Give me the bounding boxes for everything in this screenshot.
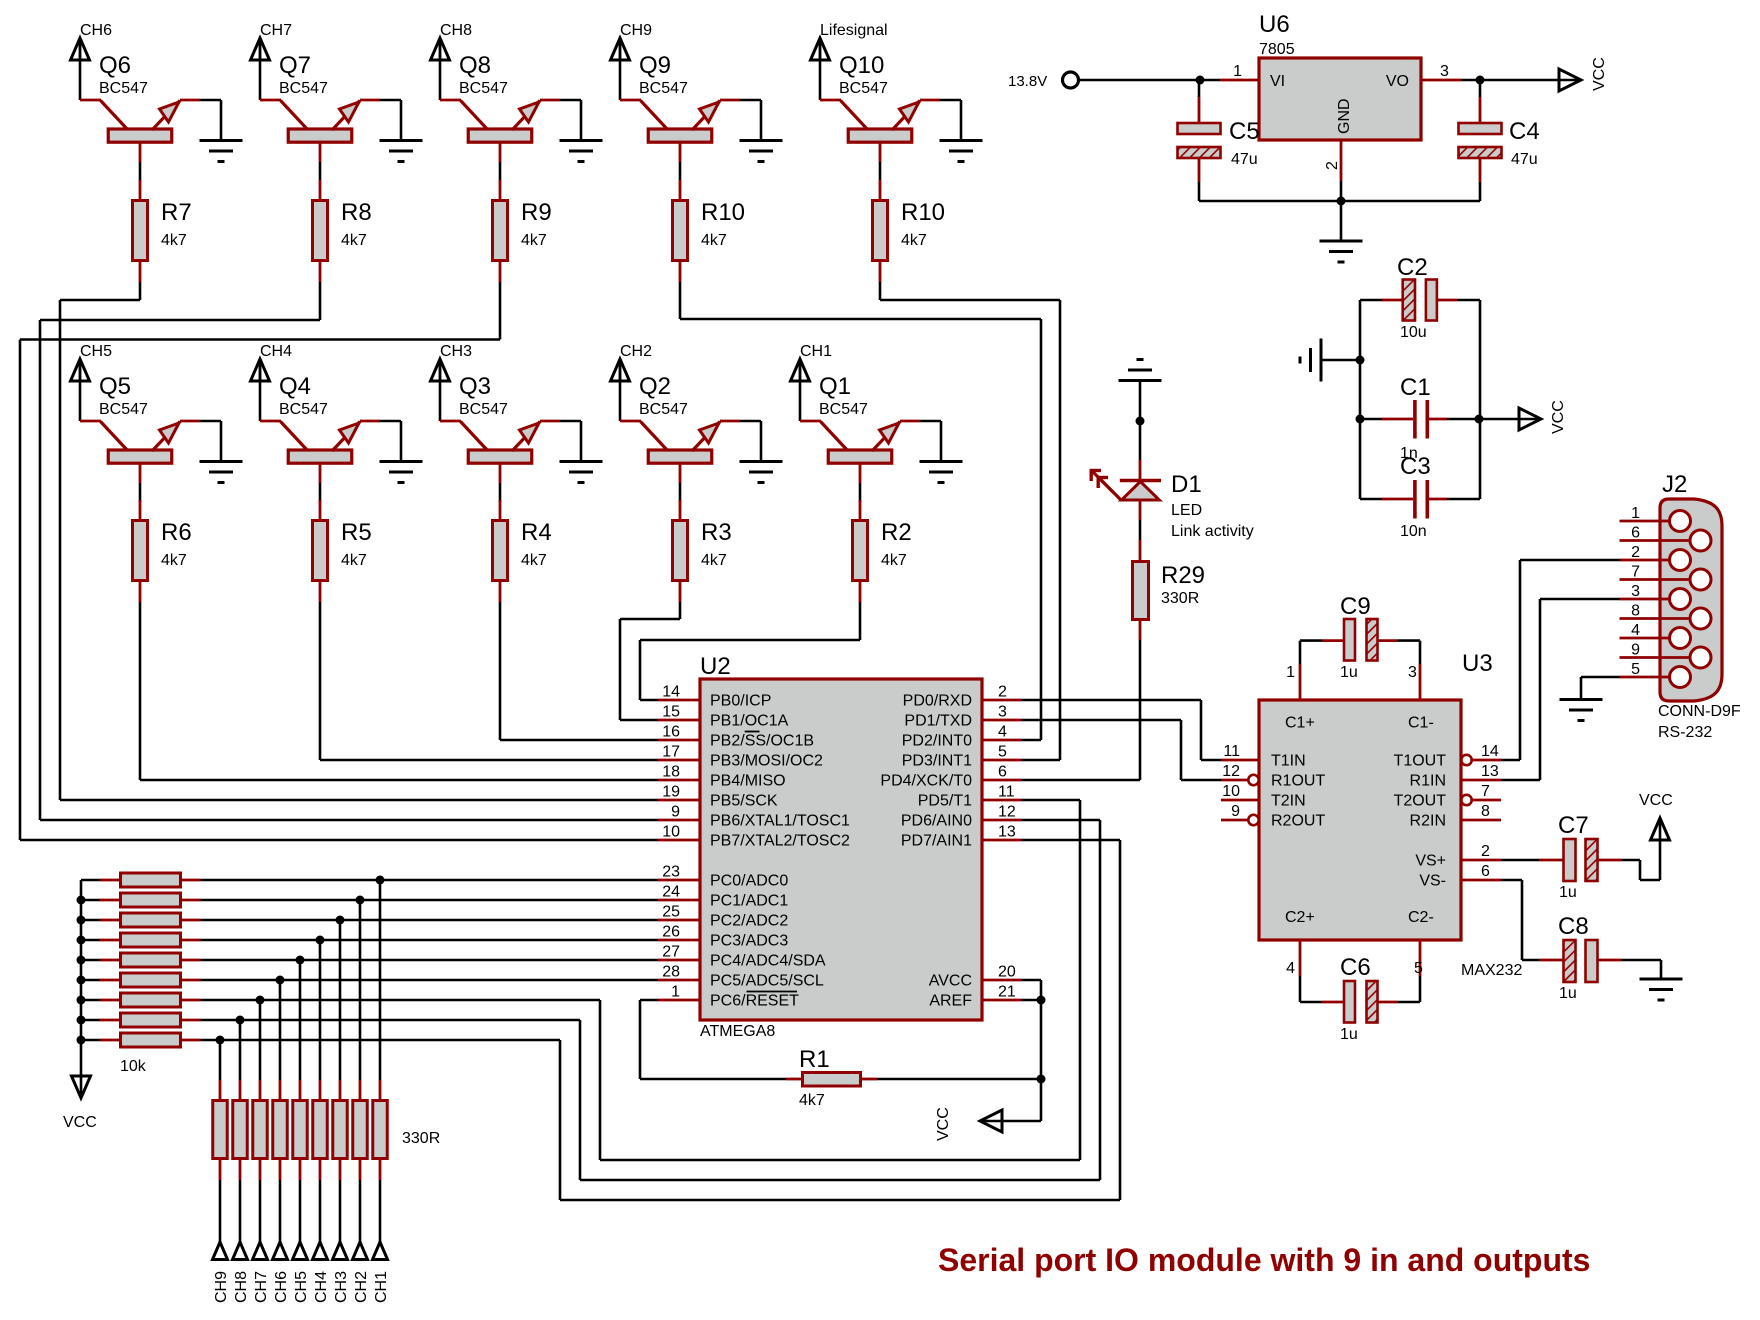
svg-text:4k7: 4k7 xyxy=(701,232,727,249)
svg-text:PB3/MOSI/OC2: PB3/MOSI/OC2 xyxy=(710,753,823,770)
svg-text:1u: 1u xyxy=(1340,1026,1358,1043)
node VO junction xyxy=(1476,76,1485,85)
svg-text:10: 10 xyxy=(662,824,680,841)
svg-text:PD4/XCK/T0: PD4/XCK/T0 xyxy=(880,773,972,790)
resistor R3 4k7 xyxy=(673,500,732,602)
node junction 330R CH8 tap xyxy=(236,1016,245,1025)
svg-text:PD6/AIN0: PD6/AIN0 xyxy=(901,813,972,830)
svg-text:J2: J2 xyxy=(1662,471,1687,498)
wire R6 base net Q5 to PB4 pin18 xyxy=(140,602,658,780)
wire PD0/RXD to T1IN xyxy=(1022,700,1221,760)
svg-text:CH6: CH6 xyxy=(80,22,112,39)
wire CH1 terminal to Q1 collector xyxy=(799,359,802,421)
svg-text:R8: R8 xyxy=(341,199,372,226)
wire Q10 emitter to ground xyxy=(940,100,961,140)
node 10k rail junction row4 xyxy=(77,936,86,945)
wire CH5 column xyxy=(299,960,302,1080)
node junction 330R CH2 tap xyxy=(356,896,365,905)
svg-text:47u: 47u xyxy=(1511,151,1538,168)
svg-text:PC4/ADC4/SDA: PC4/ADC4/SDA xyxy=(710,953,826,970)
svg-text:C7: C7 xyxy=(1558,812,1589,839)
transistor Q8 BC547 xyxy=(440,52,560,162)
ground at Q6 emitter xyxy=(200,141,243,162)
node Lifesignal terminal for Q10 xyxy=(811,22,888,60)
svg-text:R1: R1 xyxy=(799,1046,830,1073)
node CH2 terminal xyxy=(353,1242,371,1303)
svg-text:R4: R4 xyxy=(521,519,552,546)
resistor R10 4k7 xyxy=(873,180,946,282)
svg-text:VS-: VS- xyxy=(1419,873,1446,890)
svg-text:R2OUT: R2OUT xyxy=(1271,813,1325,830)
svg-text:R7: R7 xyxy=(161,199,192,226)
wire Lifesignal terminal to Q10 collector xyxy=(819,38,822,100)
LED D1 Link activity xyxy=(1090,460,1254,540)
wire J2 pin5 to ground xyxy=(1581,677,1620,700)
svg-text:VO: VO xyxy=(1386,73,1409,90)
svg-text:PC2/ADC2: PC2/ADC2 xyxy=(710,913,788,930)
wire Q5 emitter to ground xyxy=(200,421,221,461)
wire AVCC to AREF junction xyxy=(1022,980,1041,1000)
svg-text:13: 13 xyxy=(998,824,1016,841)
svg-text:T2OUT: T2OUT xyxy=(1394,793,1447,810)
svg-text:BC547: BC547 xyxy=(279,80,328,97)
resistor R4 4k7 xyxy=(493,500,552,602)
capacitor C8 1u xyxy=(1539,913,1622,1002)
wire R10 base net Q9 to PD2 pin4 xyxy=(680,282,1041,740)
wire 330R to CH8 terminal xyxy=(239,1180,242,1242)
node AREF junction xyxy=(1037,996,1046,1005)
svg-text:4k7: 4k7 xyxy=(161,232,187,249)
node 10k rail junction row2 xyxy=(77,896,86,905)
wire 330R to CH6 terminal xyxy=(279,1180,282,1242)
svg-text:CH4: CH4 xyxy=(260,343,292,360)
svg-text:U3: U3 xyxy=(1462,650,1493,677)
svg-text:4: 4 xyxy=(998,724,1007,741)
wire 330R to CH4 terminal xyxy=(319,1180,322,1242)
svg-text:D1: D1 xyxy=(1171,471,1202,498)
wire PD4 to R29 xyxy=(1022,640,1140,780)
svg-text:R1IN: R1IN xyxy=(1410,773,1446,790)
wire CH9 column xyxy=(219,1040,222,1080)
svg-text:LED: LED xyxy=(1171,502,1202,519)
wire Q7 emitter to ground xyxy=(380,100,401,140)
resistor R1 4k7 xyxy=(786,1046,877,1109)
wire CH8 terminal to Q8 collector xyxy=(439,38,442,100)
svg-text:C2: C2 xyxy=(1397,254,1428,281)
svg-text:VI: VI xyxy=(1270,73,1285,90)
svg-text:Q1: Q1 xyxy=(819,373,851,400)
svg-text:AVCC: AVCC xyxy=(929,973,972,990)
wire CH7 column xyxy=(259,1000,262,1080)
ground above D1 (inverted) xyxy=(1119,360,1162,381)
svg-text:Serial port IO module with 9 i: Serial port IO module with 9 in and outp… xyxy=(938,1242,1590,1278)
svg-text:4k7: 4k7 xyxy=(901,232,927,249)
node CH7 terminal for Q7 xyxy=(251,22,293,60)
svg-text:330R: 330R xyxy=(1161,590,1199,607)
node CH2 terminal for Q2 xyxy=(611,343,653,381)
node CH5 terminal xyxy=(293,1242,311,1303)
svg-text:PC0/ADC0: PC0/ADC0 xyxy=(710,873,788,890)
svg-text:PD5/T1: PD5/T1 xyxy=(918,793,972,810)
svg-text:Q6: Q6 xyxy=(99,52,131,79)
node CH1 terminal xyxy=(373,1242,391,1303)
svg-text:BC547: BC547 xyxy=(819,401,868,418)
svg-text:47u: 47u xyxy=(1231,151,1258,168)
svg-text:8: 8 xyxy=(1481,803,1490,820)
ground at Q8 emitter xyxy=(560,141,603,162)
node junction 330R CH6 tap xyxy=(276,976,285,985)
svg-text:4k7: 4k7 xyxy=(521,232,547,249)
wire CH4 terminal to Q4 collector xyxy=(259,359,262,421)
svg-text:5: 5 xyxy=(998,744,1007,761)
svg-text:3: 3 xyxy=(1440,63,1449,80)
svg-text:Q7: Q7 xyxy=(279,52,311,79)
label 330R for resistor column xyxy=(402,1130,440,1147)
svg-text:MAX232: MAX232 xyxy=(1461,962,1522,979)
svg-text:4k7: 4k7 xyxy=(881,552,907,569)
svg-text:RS-232: RS-232 xyxy=(1658,724,1712,741)
resistor R10 4k7 xyxy=(673,180,746,282)
svg-text:Q9: Q9 xyxy=(639,52,671,79)
node 10k rail junction row8 xyxy=(77,1016,86,1025)
transistor Q10 BC547 xyxy=(820,52,940,162)
svg-text:1u: 1u xyxy=(1340,664,1358,681)
svg-text:C1-: C1- xyxy=(1408,715,1434,732)
node ground tap junction xyxy=(1356,356,1365,365)
wire 330R to CH7 terminal xyxy=(259,1180,262,1242)
svg-text:10k: 10k xyxy=(120,1058,147,1075)
node CH6 terminal xyxy=(273,1242,291,1303)
capacitor C9 1u xyxy=(1300,593,1420,681)
svg-text:14: 14 xyxy=(662,684,680,701)
wire VO to VCC terminal xyxy=(1462,79,1579,82)
power VCC terminal at R1 net xyxy=(935,1107,1002,1141)
node C1 left junction xyxy=(1356,415,1365,424)
svg-text:R10: R10 xyxy=(901,199,945,226)
ground at Q4 emitter xyxy=(380,462,423,483)
power VCC terminal at C1 xyxy=(1519,400,1567,434)
wire R10 base net Q10 to PD3 pin5 xyxy=(880,282,1060,760)
svg-text:4k7: 4k7 xyxy=(521,552,547,569)
svg-text:T1OUT: T1OUT xyxy=(1394,753,1447,770)
svg-text:28: 28 xyxy=(662,964,680,981)
transistor Q7 BC547 xyxy=(260,52,380,162)
wire Q10 base lead xyxy=(879,162,882,181)
wire C7 to VCC xyxy=(1622,820,1660,880)
svg-text:5: 5 xyxy=(1414,960,1423,977)
wire PD7/AIN1 to 10k row9 xyxy=(200,840,1120,1200)
svg-text:C6: C6 xyxy=(1340,954,1371,981)
power VCC terminal below 10k rail xyxy=(63,1076,97,1131)
svg-text:1: 1 xyxy=(1631,505,1640,522)
resistor 330R CH6 xyxy=(273,1080,288,1180)
svg-text:8: 8 xyxy=(1631,603,1640,620)
node junction 330R CH7 tap xyxy=(256,996,265,1005)
svg-text:24: 24 xyxy=(662,884,680,901)
svg-text:CH2: CH2 xyxy=(353,1271,370,1303)
node 10k rail junction row7 xyxy=(77,996,86,1005)
svg-text:BC547: BC547 xyxy=(839,80,888,97)
transistor Q9 BC547 xyxy=(620,52,740,162)
svg-text:CH5: CH5 xyxy=(80,343,112,360)
svg-text:R1OUT: R1OUT xyxy=(1271,773,1325,790)
title text xyxy=(938,1242,1590,1278)
ground at Q2 emitter xyxy=(740,462,783,483)
resistor 330R CH3 xyxy=(333,1080,348,1180)
svg-text:Lifesignal: Lifesignal xyxy=(820,22,888,39)
node D1 cathode junction xyxy=(1136,417,1145,426)
wire C8 to ground xyxy=(1622,960,1661,979)
svg-text:4k7: 4k7 xyxy=(161,552,187,569)
svg-text:16: 16 xyxy=(662,724,680,741)
svg-text:PC1/ADC1: PC1/ADC1 xyxy=(710,893,788,910)
svg-text:CH1: CH1 xyxy=(800,343,832,360)
ground at Q1 emitter xyxy=(920,462,963,483)
svg-text:12: 12 xyxy=(1222,763,1240,780)
wire R8 base net Q7 to PB6 pin9 xyxy=(40,282,658,820)
svg-text:ATMEGA8: ATMEGA8 xyxy=(700,1023,775,1040)
svg-text:CH1: CH1 xyxy=(373,1271,390,1303)
svg-text:9: 9 xyxy=(1631,642,1640,659)
resistor 330R CH9 xyxy=(213,1080,228,1180)
wire R3 base net Q2 to PB1 pin15 xyxy=(620,602,680,720)
svg-text:R6: R6 xyxy=(161,519,192,546)
node CH6 terminal for Q6 xyxy=(71,22,113,60)
svg-text:VCC: VCC xyxy=(63,1114,97,1131)
svg-text:C9: C9 xyxy=(1340,593,1371,620)
wire PC6/RESET to R1 xyxy=(640,1000,786,1079)
svg-text:Q4: Q4 xyxy=(279,373,311,400)
ground at J2 pin5 xyxy=(1560,700,1603,721)
wire Q3 emitter to ground xyxy=(560,421,581,461)
svg-text:PC5/ADC5/SCL: PC5/ADC5/SCL xyxy=(710,973,824,990)
svg-text:R5: R5 xyxy=(341,519,372,546)
wire Q4 emitter to ground xyxy=(380,421,401,461)
svg-text:330R: 330R xyxy=(402,1130,440,1147)
transistor Q4 BC547 xyxy=(260,373,380,483)
wire R2 base net Q1 to PB0 pin14 xyxy=(640,602,860,700)
wire 13.8V to VI xyxy=(1079,79,1221,82)
wire R7 base net Q6 to PB5 pin19 xyxy=(60,282,658,800)
transistor Q6 BC547 xyxy=(80,52,200,162)
wire C2-C1-C3 right rail xyxy=(1479,300,1482,499)
svg-text:U2: U2 xyxy=(700,653,731,680)
wire CH3 column xyxy=(339,920,342,1080)
IC U3 MAX232 xyxy=(1221,650,1522,979)
resistor R7 4k7 xyxy=(133,180,192,282)
svg-text:CH4: CH4 xyxy=(313,1271,330,1303)
svg-text:CH8: CH8 xyxy=(440,22,472,39)
svg-text:PD0/RXD: PD0/RXD xyxy=(903,693,972,710)
node C1 right junction xyxy=(1475,415,1484,424)
svg-text:BC547: BC547 xyxy=(279,401,328,418)
svg-text:4k7: 4k7 xyxy=(701,552,727,569)
svg-text:7: 7 xyxy=(1631,564,1640,581)
svg-text:18: 18 xyxy=(662,764,680,781)
svg-text:C2+: C2+ xyxy=(1285,909,1315,926)
svg-text:3: 3 xyxy=(1408,664,1417,681)
svg-text:1u: 1u xyxy=(1559,985,1577,1002)
svg-text:AREF: AREF xyxy=(929,993,972,1010)
resistor R6 4k7 xyxy=(133,500,192,602)
svg-text:Q10: Q10 xyxy=(839,52,884,79)
resistor 330R CH5 xyxy=(293,1080,308,1180)
resistor R5 4k7 xyxy=(313,500,372,602)
connector J2 CONN-D9F RS-232 xyxy=(1620,471,1741,741)
capacitor C3 10n xyxy=(1360,453,1480,540)
svg-text:7: 7 xyxy=(1481,783,1490,800)
wire PD5/T1 to 10k row7 xyxy=(200,800,1080,1160)
wire CH4 column xyxy=(319,940,322,1080)
transistor Q5 BC547 xyxy=(80,373,200,483)
svg-text:C5: C5 xyxy=(1229,118,1260,145)
svg-text:PB5/SCK: PB5/SCK xyxy=(710,793,778,810)
svg-text:CH2: CH2 xyxy=(620,343,652,360)
wire CH3 terminal to Q3 collector xyxy=(439,359,442,421)
node 10k rail junction row6 xyxy=(77,976,86,985)
node CH8 terminal xyxy=(233,1242,251,1303)
svg-text:CH3: CH3 xyxy=(440,343,472,360)
wire R4 base net Q3 to PB2 pin16 xyxy=(500,602,658,740)
wire T1OUT to J2 pin2 xyxy=(1501,560,1620,760)
svg-text:14: 14 xyxy=(1481,743,1499,760)
svg-text:PB2/SS/OC1B: PB2/SS/OC1B xyxy=(710,733,814,750)
resistor R2 4k7 xyxy=(853,500,912,602)
resistor R29 330R xyxy=(1133,540,1206,640)
svg-text:VCC: VCC xyxy=(1591,57,1608,91)
wire CH2 column xyxy=(359,900,362,1080)
svg-text:PD3/INT1: PD3/INT1 xyxy=(902,753,972,770)
wire 10k row2 to PC1 xyxy=(200,899,658,902)
node junction 330R CH1 tap xyxy=(376,876,385,885)
wire C5 bottom to ground rail xyxy=(1199,182,1480,201)
svg-text:R2IN: R2IN xyxy=(1410,813,1446,830)
svg-text:GND: GND xyxy=(1336,98,1353,134)
node CH3 terminal for Q3 xyxy=(431,343,473,381)
svg-text:BC547: BC547 xyxy=(639,80,688,97)
svg-text:2: 2 xyxy=(998,684,1007,701)
svg-text:R2: R2 xyxy=(881,519,912,546)
svg-text:CH3: CH3 xyxy=(333,1271,350,1303)
svg-text:6: 6 xyxy=(1631,525,1640,542)
power VCC terminal at U6 output xyxy=(1559,57,1608,91)
svg-text:26: 26 xyxy=(662,924,680,941)
node CH7 terminal xyxy=(253,1242,271,1303)
capacitor C2 10u xyxy=(1360,254,1480,341)
ground at Q5 emitter xyxy=(200,462,243,483)
wire 10k row1 to PC0 xyxy=(200,879,658,882)
svg-text:C1+: C1+ xyxy=(1285,715,1315,732)
svg-text:27: 27 xyxy=(662,944,680,961)
node CH4 terminal for Q4 xyxy=(251,343,293,381)
wire R1 to VCC rail xyxy=(877,1078,1041,1081)
svg-text:13: 13 xyxy=(1481,763,1499,780)
wire CH6 terminal to Q6 collector xyxy=(79,38,82,100)
node R1-VCC junction xyxy=(1037,1075,1046,1084)
wire Q6 base lead xyxy=(139,162,142,181)
svg-text:T1IN: T1IN xyxy=(1271,753,1306,770)
svg-text:21: 21 xyxy=(998,984,1016,1001)
wire CH6 column xyxy=(279,980,282,1080)
node VI junction xyxy=(1196,76,1205,85)
svg-text:9: 9 xyxy=(1231,803,1240,820)
svg-text:3: 3 xyxy=(998,704,1007,721)
wire PD6/AIN0 to 10k row8 xyxy=(200,820,1100,1180)
power VCC terminal at C7 xyxy=(1639,792,1673,840)
svg-text:CH6: CH6 xyxy=(273,1271,290,1303)
svg-text:VS+: VS+ xyxy=(1415,853,1446,870)
svg-text:PB7/XTAL2/TOSC2: PB7/XTAL2/TOSC2 xyxy=(710,833,850,850)
svg-text:2: 2 xyxy=(1324,161,1341,170)
svg-text:VCC: VCC xyxy=(935,1107,952,1141)
svg-text:11: 11 xyxy=(998,784,1015,801)
resistor R9 4k7 xyxy=(493,180,552,282)
svg-text:PB1/OC1A: PB1/OC1A xyxy=(710,713,789,730)
IC U6 7805 xyxy=(1220,11,1462,181)
svg-text:R10: R10 xyxy=(701,199,745,226)
wire 10k row6 to PC5 xyxy=(200,979,658,982)
svg-text:C8: C8 xyxy=(1558,913,1589,940)
svg-text:6: 6 xyxy=(1481,863,1490,880)
wire CH1 column xyxy=(379,880,382,1080)
wire CH8 column xyxy=(239,1020,242,1080)
wire R5 base net Q4 to PB3 pin17 xyxy=(320,602,658,760)
wire Q5 base lead xyxy=(139,483,142,502)
svg-text:CH7: CH7 xyxy=(253,1271,270,1303)
svg-text:CONN-D9F: CONN-D9F xyxy=(1658,703,1741,720)
svg-text:Q8: Q8 xyxy=(459,52,491,79)
capacitor C1 1n xyxy=(1360,374,1480,462)
svg-text:10u: 10u xyxy=(1400,324,1427,341)
svg-text:PD1/TXD: PD1/TXD xyxy=(904,713,972,730)
svg-text:4k7: 4k7 xyxy=(799,1092,825,1109)
svg-text:10n: 10n xyxy=(1400,523,1427,540)
wire 10k row3 to PC2 xyxy=(200,919,658,922)
wire Q1 base lead xyxy=(859,483,862,502)
svg-text:Q3: Q3 xyxy=(459,373,491,400)
ground at Q10 emitter xyxy=(940,141,983,162)
wire Q4 base lead xyxy=(319,483,322,502)
node junction 330R CH3 tap xyxy=(336,916,345,925)
resistor R8 4k7 xyxy=(313,180,372,282)
svg-text:9: 9 xyxy=(671,804,680,821)
svg-text:BC547: BC547 xyxy=(639,401,688,418)
svg-text:PD2/INT0: PD2/INT0 xyxy=(902,733,972,750)
wire Q7 base lead xyxy=(319,162,322,181)
wire C2-C1-C3 left rail xyxy=(1359,300,1362,499)
wire Q9 emitter to ground xyxy=(740,100,761,140)
svg-text:R29: R29 xyxy=(1161,562,1205,589)
capacitor C7 1u xyxy=(1501,812,1622,901)
svg-text:7805: 7805 xyxy=(1259,41,1295,58)
resistor 330R CH8 xyxy=(233,1080,248,1180)
wire left VCC rail of 10k stack xyxy=(81,880,100,1096)
transistor Q3 BC547 xyxy=(440,373,560,483)
IC U2 ATMEGA8 xyxy=(658,653,1022,1040)
svg-text:23: 23 xyxy=(662,864,680,881)
wire CH9 terminal to Q9 collector xyxy=(619,38,622,100)
svg-text:R9: R9 xyxy=(521,199,552,226)
resistor network 10k pull-ups xyxy=(100,873,201,1075)
svg-text:U6: U6 xyxy=(1259,11,1290,38)
svg-text:PB4/MISO: PB4/MISO xyxy=(710,773,786,790)
svg-text:CH7: CH7 xyxy=(260,22,292,39)
wire VS- to C8 xyxy=(1501,880,1539,960)
svg-text:CH9: CH9 xyxy=(213,1271,230,1303)
svg-text:PC6/RESET: PC6/RESET xyxy=(710,993,799,1010)
wire Q9 base lead xyxy=(679,162,682,181)
node 10k rail junction row3 xyxy=(77,916,86,925)
